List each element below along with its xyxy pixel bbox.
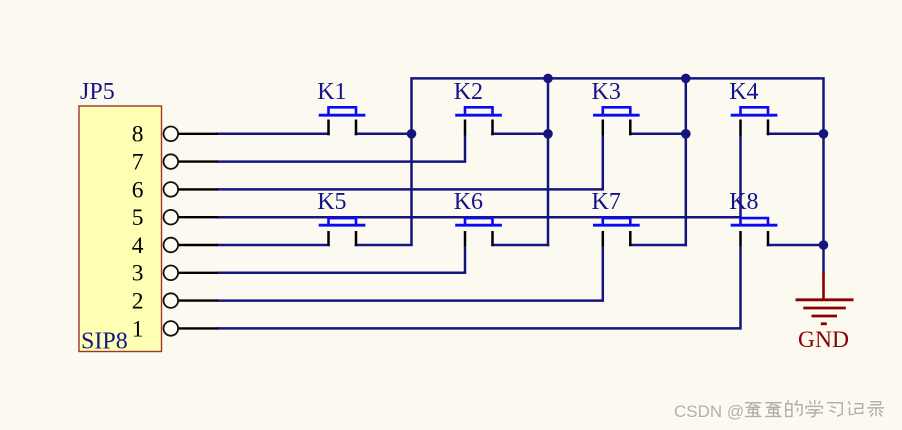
wire pin5 to K4 left pin (bend up): [217, 135, 741, 217]
wire top bus with column 1 and column 4 verticals: [412, 78, 824, 273]
svg-text:5: 5: [132, 205, 144, 231]
push button K8: [729, 189, 777, 246]
wire K3 right pin to column 3: [630, 133, 686, 136]
push button K6: [454, 189, 502, 246]
svg-text:SIP8: SIP8: [81, 328, 128, 354]
connector JP5 body: [79, 106, 162, 352]
push button K5: [317, 189, 365, 246]
wire pin8 to K1 left pin: [217, 133, 329, 136]
wire column 2 vertical: [547, 78, 550, 245]
wire pin4 to K5 left pin: [217, 244, 329, 247]
junction dot 3: [407, 129, 417, 139]
svg-text:K7: K7: [592, 189, 621, 215]
wire column 3 vertical: [685, 78, 688, 245]
junction dot 4: [543, 129, 553, 139]
wire K8 right pin to column 4: [768, 244, 824, 247]
wire K4 right pin to column 4: [768, 133, 824, 136]
wire pin2 to K7 left pin (bend up): [217, 246, 603, 301]
svg-text:8: 8: [132, 122, 144, 148]
junction dot 2: [681, 74, 691, 84]
svg-text:4: 4: [132, 233, 144, 259]
junction dot 6: [819, 129, 829, 139]
svg-text:K8: K8: [729, 189, 758, 215]
svg-text:K3: K3: [592, 79, 621, 105]
ground symbol: [796, 272, 854, 324]
svg-text:K6: K6: [454, 189, 483, 215]
svg-text:6: 6: [132, 177, 144, 203]
svg-text:CSDN @: CSDN @: [674, 402, 744, 421]
push button K4: [729, 79, 777, 135]
push button K3: [592, 79, 640, 135]
wire K2 right pin to column 2: [493, 133, 549, 136]
push button K2: [454, 79, 502, 135]
junction dot 1: [543, 74, 553, 84]
svg-text:JP5: JP5: [80, 79, 115, 105]
svg-text:2: 2: [132, 289, 144, 315]
wire K7 right pin to column 3: [630, 244, 686, 247]
svg-text:7: 7: [132, 150, 144, 176]
wire pin7 to K2 left pin (bend up): [217, 135, 465, 162]
wire pin1 to K8 left pin (bend up): [217, 246, 741, 328]
push button K1: [317, 79, 365, 135]
svg-text:K1: K1: [317, 79, 346, 105]
svg-text:K4: K4: [729, 79, 758, 105]
svg-text:K2: K2: [454, 79, 483, 105]
push button K7: [592, 189, 640, 246]
wire pin6 to K3 left pin (bend up): [217, 135, 603, 190]
svg-text:3: 3: [132, 261, 144, 287]
svg-text:K5: K5: [317, 189, 346, 215]
wire K1 right pin to column 1: [356, 133, 412, 136]
wire K6 right pin to column 2: [493, 244, 549, 247]
watermark CSDN @dandan study notes: [674, 401, 885, 422]
svg-text:1: 1: [132, 316, 144, 342]
junction dot 7: [819, 240, 829, 250]
junction dot 5: [681, 129, 691, 139]
svg-text:GND: GND: [798, 327, 849, 353]
wire K5 right pin to column 1: [356, 244, 412, 247]
wire pin3 to K6 left pin (bend up): [217, 246, 465, 273]
